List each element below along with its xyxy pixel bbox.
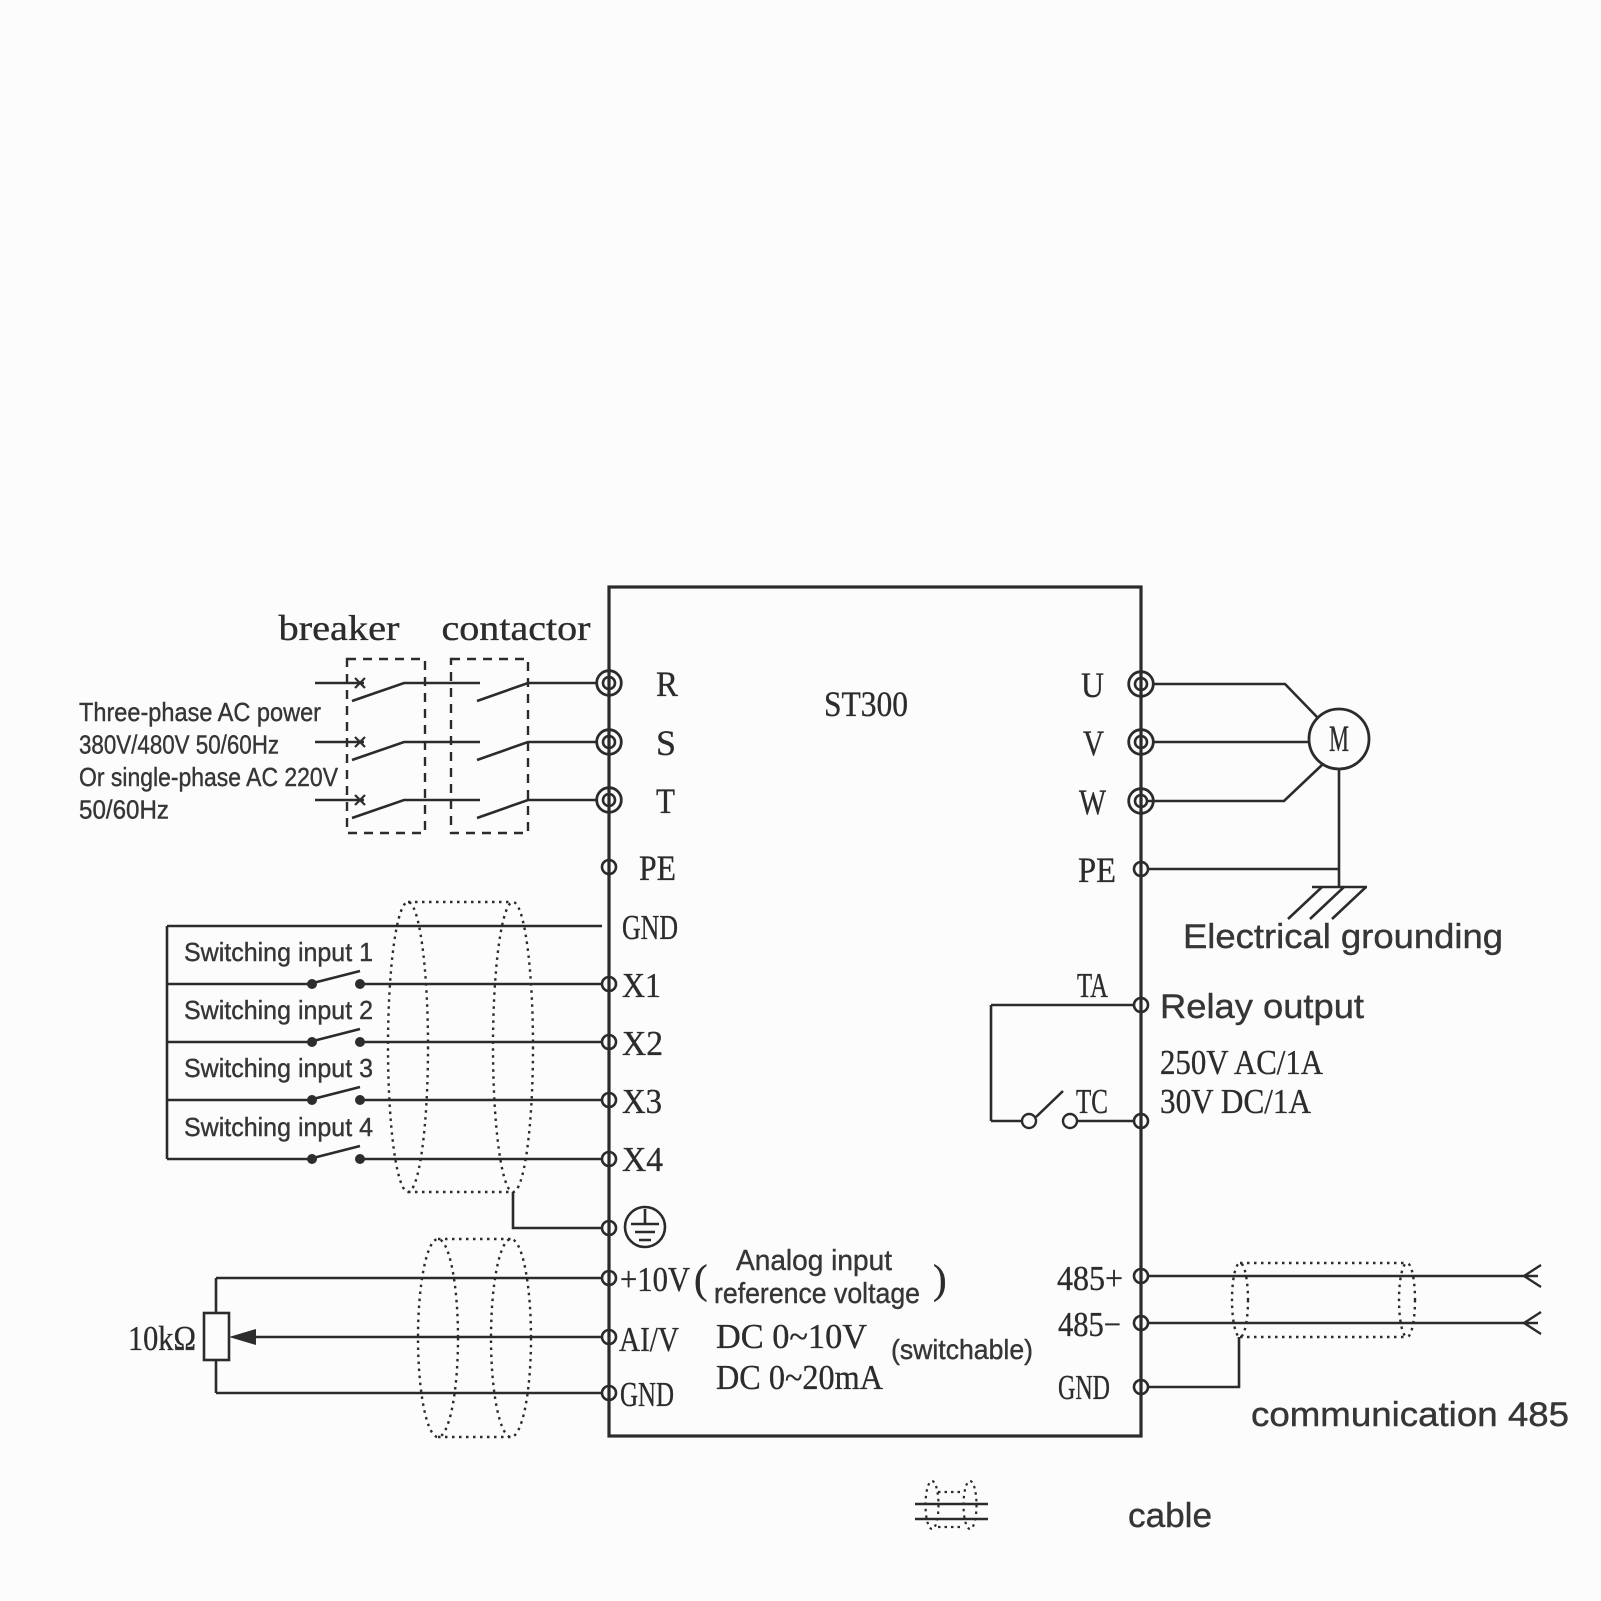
svg-text:PE: PE bbox=[1078, 850, 1116, 890]
svg-text:485+: 485+ bbox=[1057, 1259, 1123, 1298]
arrow 485+ bbox=[1524, 1265, 1541, 1287]
svg-text:(switchable): (switchable) bbox=[891, 1334, 1033, 1365]
svg-text:X2: X2 bbox=[622, 1024, 663, 1063]
arrow 485- bbox=[1524, 1312, 1541, 1334]
svg-text:250V AC/1A: 250V AC/1A bbox=[1160, 1043, 1324, 1082]
terminal GND analog bbox=[602, 1386, 616, 1400]
electrical ground symbol bbox=[1288, 887, 1367, 919]
svg-text:Analog input: Analog input bbox=[736, 1245, 892, 1277]
wire 485- bbox=[1148, 1322, 1524, 1325]
phase S wires and switches bbox=[315, 737, 597, 760]
svg-text:M: M bbox=[1329, 719, 1349, 760]
shielded cable 485 bbox=[1232, 1263, 1415, 1337]
svg-text:X3: X3 bbox=[622, 1082, 662, 1121]
wire GND analog bbox=[216, 1392, 602, 1395]
wire PE right bbox=[1148, 868, 1339, 871]
svg-text:TA: TA bbox=[1077, 966, 1109, 1005]
svg-text:AI/V: AI/V bbox=[619, 1320, 679, 1359]
switching inputs bracket wire bbox=[166, 926, 169, 1159]
svg-text:+10V: +10V bbox=[620, 1260, 690, 1299]
terminal X4 bbox=[602, 1152, 616, 1166]
terminal earth bbox=[602, 1221, 616, 1235]
terminal AI/V bbox=[602, 1330, 616, 1344]
svg-text:R: R bbox=[656, 664, 678, 704]
svg-text:S: S bbox=[656, 723, 676, 763]
terminal PE right bbox=[1134, 862, 1148, 876]
svg-text:W: W bbox=[1079, 782, 1106, 822]
motor earth wire bbox=[1338, 769, 1341, 887]
motor M bbox=[1309, 709, 1369, 769]
terminal W bbox=[1129, 789, 1154, 814]
terminal GND 485 bbox=[1134, 1380, 1148, 1394]
svg-text:Three-phase AC power: Three-phase AC power bbox=[79, 697, 321, 727]
svg-text:DC 0~20mA: DC 0~20mA bbox=[716, 1358, 884, 1397]
contactor dashed box bbox=[451, 659, 528, 833]
svg-text:GND: GND bbox=[622, 908, 678, 947]
svg-text:(: ( bbox=[694, 1256, 708, 1302]
svg-text:TC: TC bbox=[1076, 1082, 1108, 1121]
svg-text:Switching input 1: Switching input 1 bbox=[184, 937, 373, 967]
terminal TC bbox=[1134, 1114, 1148, 1128]
shielded cable 2 (analog) bbox=[418, 1239, 531, 1437]
terminal PE left bbox=[602, 860, 616, 874]
analog annotation bbox=[694, 1245, 1033, 1397]
relay switch bbox=[1022, 1091, 1134, 1128]
svg-text:T: T bbox=[656, 781, 675, 821]
shielded cable 1 (digital inputs) bbox=[388, 902, 533, 1192]
phase R wires and switches bbox=[315, 678, 597, 701]
terminal T bbox=[597, 788, 622, 813]
terminal R bbox=[597, 671, 622, 696]
svg-text:Switching input 3: Switching input 3 bbox=[184, 1053, 373, 1083]
svg-text:X4: X4 bbox=[622, 1140, 663, 1179]
wire V to motor bbox=[1153, 741, 1309, 744]
wire 485+ bbox=[1148, 1275, 1524, 1278]
svg-text:contactor: contactor bbox=[442, 608, 591, 648]
svg-text:Relay output: Relay output bbox=[1160, 988, 1365, 1026]
cable legend symbol bbox=[915, 1481, 988, 1529]
svg-text:PE: PE bbox=[639, 848, 676, 888]
wire W to motor bbox=[1148, 764, 1323, 801]
potentiometer 10k bbox=[128, 1278, 229, 1393]
switching input 3 bbox=[167, 1053, 602, 1105]
terminal TA bbox=[1134, 998, 1148, 1012]
terminal +10V bbox=[602, 1271, 616, 1285]
terminal S bbox=[597, 730, 622, 755]
svg-text:reference voltage: reference voltage bbox=[714, 1278, 920, 1310]
terminal V bbox=[1129, 730, 1154, 755]
three-phase AC power text bbox=[79, 697, 339, 825]
wire U to motor bbox=[1153, 684, 1317, 717]
svg-text:GND: GND bbox=[1058, 1368, 1110, 1407]
svg-text:Switching input 2: Switching input 2 bbox=[184, 995, 373, 1025]
terminal X3 bbox=[602, 1093, 616, 1107]
relay TA wire bbox=[991, 1005, 1134, 1121]
svg-text:GND: GND bbox=[620, 1375, 674, 1414]
svg-text:X1: X1 bbox=[622, 966, 661, 1005]
wiper arrow bbox=[229, 1329, 602, 1345]
svg-text:DC 0~10V: DC 0~10V bbox=[716, 1317, 867, 1356]
switching input 2 bbox=[167, 995, 602, 1047]
svg-text:30V DC/1A: 30V DC/1A bbox=[1160, 1082, 1312, 1121]
terminal U bbox=[1129, 672, 1154, 697]
svg-text:Electrical grounding: Electrical grounding bbox=[1183, 918, 1503, 956]
terminal 485+ bbox=[1134, 1269, 1148, 1283]
svg-text:U: U bbox=[1081, 665, 1104, 705]
switching input 4 bbox=[167, 1112, 602, 1164]
svg-text:10kΩ: 10kΩ bbox=[128, 1319, 196, 1358]
protective earth symbol bbox=[625, 1207, 665, 1247]
wire +10V bbox=[216, 1277, 602, 1280]
terminal X2 bbox=[602, 1035, 616, 1049]
shield drain wire bbox=[513, 1192, 602, 1228]
svg-text:Or single-phase AC 220V: Or single-phase AC 220V bbox=[79, 762, 339, 792]
wire GND to shield bbox=[1148, 1337, 1239, 1387]
phase T wires and switches bbox=[315, 795, 597, 818]
breaker dashed box bbox=[347, 659, 425, 833]
svg-text:breaker: breaker bbox=[279, 608, 400, 648]
main box ST300 bbox=[609, 587, 1141, 1436]
svg-text:380V/480V 50/60Hz: 380V/480V 50/60Hz bbox=[79, 730, 279, 760]
svg-text:communication 485: communication 485 bbox=[1251, 1396, 1569, 1434]
svg-text:Switching input 4: Switching input 4 bbox=[184, 1112, 373, 1142]
svg-text:V: V bbox=[1083, 723, 1104, 763]
svg-text:485−: 485− bbox=[1058, 1305, 1121, 1344]
terminal 485- bbox=[1134, 1316, 1148, 1330]
svg-text:): ) bbox=[933, 1256, 947, 1302]
svg-text:ST300: ST300 bbox=[824, 684, 908, 724]
switching input 1 bbox=[167, 937, 602, 989]
svg-text:cable: cable bbox=[1128, 1497, 1212, 1535]
terminal X1 bbox=[602, 977, 616, 991]
GND wire top bbox=[167, 925, 602, 928]
svg-text:50/60Hz: 50/60Hz bbox=[79, 795, 169, 825]
